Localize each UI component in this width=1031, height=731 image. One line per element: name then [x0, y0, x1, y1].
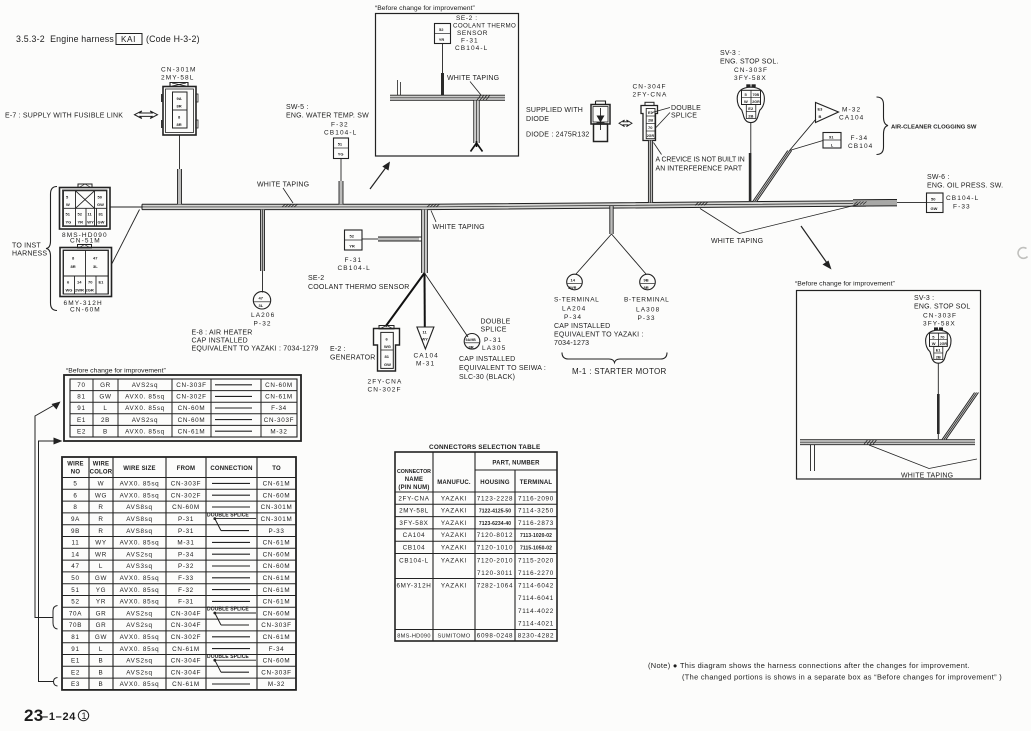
svg-text:70: 70 — [88, 280, 93, 285]
svg-text:L: L — [99, 563, 103, 570]
svg-text:YR: YR — [439, 37, 445, 42]
svg-text:2B: 2B — [648, 118, 653, 123]
svg-text:7115-1050-02: 7115-1050-02 — [520, 546, 552, 552]
svg-text:R: R — [98, 504, 103, 511]
svg-text:HOUSING: HOUSING — [480, 480, 510, 486]
svg-text:9A: 9A — [177, 96, 182, 101]
triangle CA104 M-31 — [417, 327, 434, 349]
svg-text:CAP INSTALLED: CAP INSTALLED — [554, 323, 610, 330]
svg-text:AN INTERFERENCE PART: AN INTERFERENCE PART — [656, 166, 743, 173]
svg-text:CN-302F: CN-302F — [176, 394, 206, 401]
svg-text:7114-6042: 7114-6042 — [518, 583, 554, 590]
svg-text:CN-60M: CN-60M — [263, 492, 291, 499]
svg-text:E1: E1 — [99, 280, 105, 285]
svg-text:YG: YG — [66, 220, 72, 225]
drop to LA206 P-32 — [260, 210, 264, 271]
svg-text:DOUBLE: DOUBLE — [481, 319, 511, 326]
svg-text:TO INST: TO INST — [12, 243, 41, 250]
svg-text:YAZAKI: YAZAKI — [441, 508, 467, 515]
wire CN-304F to band — [648, 141, 653, 203]
pin grid — [64, 251, 109, 295]
svg-text:CA104: CA104 — [414, 353, 439, 360]
svg-text:CN-302F: CN-302F — [171, 492, 201, 499]
svg-text:(Note) ● This diagram shows th: (Note) ● This diagram shows the harness … — [648, 661, 970, 670]
svg-text:SUMITOMO: SUMITOMO — [437, 634, 470, 640]
white taping hatch 4 — [854, 202, 867, 205]
svg-text:EQUIVALENT TO YAZAKI :: EQUIVALENT TO YAZAKI : — [554, 332, 644, 339]
svg-text:F-31: F-31 — [461, 38, 479, 45]
svg-text:CN-304F: CN-304F — [171, 610, 201, 617]
svg-text:7116-2873: 7116-2873 — [518, 520, 554, 527]
svg-text:SE-2: SE-2 — [308, 275, 324, 282]
svg-text:5: 5 — [73, 481, 77, 488]
starter underbrace — [562, 353, 667, 363]
side bumps — [161, 94, 163, 102]
svg-text:91: 91 — [77, 405, 85, 412]
top tab — [78, 184, 92, 188]
svg-text:8R: 8R — [644, 285, 649, 290]
svg-text:ENG. STOP SOL.: ENG. STOP SOL. — [720, 59, 779, 66]
svg-text:AVS8sq: AVS8sq — [126, 516, 153, 523]
svg-text:P-31: P-31 — [484, 337, 502, 344]
pin grid — [64, 191, 107, 226]
svg-text:8MS-HD090: 8MS-HD090 — [397, 634, 430, 640]
svg-text:7116-2270: 7116-2270 — [518, 570, 554, 577]
svg-text:9B: 9B — [644, 278, 649, 283]
svg-text:CONNECTOR: CONNECTOR — [397, 469, 431, 475]
svg-text:COOLANT THERMO SENSOR: COOLANT THERMO SENSOR — [308, 284, 410, 291]
svg-text:CN-61M: CN-61M — [263, 599, 291, 606]
inset diagonal band — [942, 393, 979, 440]
svg-text:8: 8 — [73, 504, 77, 511]
hollow arrow E-7 — [135, 111, 158, 119]
svg-text:CN-61M: CN-61M — [263, 481, 291, 488]
wire 52/YR to drop band with tape — [362, 238, 378, 240]
svg-text:7120-1010: 7120-1010 — [477, 545, 513, 552]
svg-text:CN-303F: CN-303F — [923, 313, 957, 320]
inset left stub — [811, 445, 815, 471]
pin cells — [173, 92, 188, 128]
svg-text:70: 70 — [940, 334, 945, 339]
svg-text:50: 50 — [931, 196, 936, 201]
white taping hatch 1 — [282, 204, 298, 207]
svg-text:1: 1 — [82, 711, 87, 721]
svg-text:2B: 2B — [101, 417, 110, 424]
svg-text:WHITE TAPING: WHITE TAPING — [901, 473, 953, 480]
svg-text:–1–24: –1–24 — [42, 711, 76, 723]
svg-text:9B: 9B — [71, 528, 80, 535]
svg-text:7282-1064: 7282-1064 — [477, 583, 513, 590]
svg-text:5: 5 — [66, 195, 69, 200]
svg-text:“Before change for improvement: “Before change for improvement” — [795, 281, 895, 288]
svg-text:S-TERMINAL: S-TERMINAL — [554, 297, 599, 304]
svg-text:3.5.3-2 Engine harness: 3.5.3-2 Engine harness — [16, 34, 114, 44]
svg-text:(The changed portions is shows: (The changed portions is shows in a sepa… — [682, 673, 1002, 682]
svg-text:YR: YR — [96, 599, 106, 606]
svg-text:SE-2 :: SE-2 : — [456, 15, 478, 22]
inset taping hatch — [477, 95, 490, 100]
svg-text:F-34: F-34 — [269, 646, 285, 653]
svg-text:6098-0248: 6098-0248 — [477, 633, 513, 640]
svg-text:GW: GW — [384, 362, 391, 367]
S terminal circle 14/2WR — [567, 274, 583, 290]
svg-text:NAME: NAME — [405, 477, 423, 483]
svg-text:YAZAKI: YAZAKI — [441, 583, 467, 590]
connector CN-301M 2MY-58L — [161, 67, 198, 136]
svg-text:CAP INSTALLED: CAP INSTALLED — [459, 356, 515, 363]
svg-text:E2: E2 — [77, 428, 86, 435]
svg-text:2FY-CNA: 2FY-CNA — [633, 92, 668, 99]
brace TO INST HARNESS — [46, 187, 57, 311]
svg-text:F-31: F-31 — [345, 257, 363, 264]
svg-text:47: 47 — [259, 296, 264, 301]
svg-text:P-33: P-33 — [638, 315, 656, 322]
svg-text:7115-2020: 7115-2020 — [518, 558, 554, 565]
svg-text:LA308: LA308 — [636, 307, 660, 314]
svg-text:CN-302F: CN-302F — [368, 387, 402, 394]
inset harness band — [390, 95, 505, 101]
svg-text:M-32: M-32 — [842, 107, 861, 114]
svg-text:YR: YR — [349, 244, 355, 249]
diode symbol — [600, 108, 602, 130]
svg-text:GW: GW — [99, 394, 111, 401]
svg-text:70: 70 — [77, 382, 85, 389]
svg-text:AVS2sq: AVS2sq — [132, 417, 159, 424]
svg-text:F-33: F-33 — [953, 204, 971, 211]
svg-text:GR: GR — [96, 610, 107, 617]
svg-text:7120-8012: 7120-8012 — [477, 532, 513, 539]
svg-text:CB104-L: CB104-L — [399, 558, 429, 565]
svg-text:L: L — [99, 646, 103, 653]
svg-text:AVS2sq: AVS2sq — [126, 610, 153, 617]
svg-text:CN-304F: CN-304F — [633, 84, 667, 91]
svg-text:81: 81 — [385, 354, 390, 359]
wire CN-60M to band — [112, 210, 140, 264]
svg-text:2B: 2B — [936, 355, 941, 360]
svg-text:E1: E1 — [77, 417, 86, 424]
svg-text:11: 11 — [423, 330, 428, 335]
svg-text:CB104-L: CB104-L — [338, 265, 371, 272]
diagonal band to air cleaner sw — [753, 151, 792, 202]
arrow pointing to top inset — [370, 162, 390, 190]
svg-text:GW: GW — [98, 220, 105, 225]
svg-text:7120-3011: 7120-3011 — [477, 570, 513, 577]
svg-text:DOUBLE SPLICE: DOUBLE SPLICE — [207, 607, 249, 613]
svg-text:CN-303F: CN-303F — [261, 669, 291, 676]
svg-text:F-32: F-32 — [331, 122, 349, 129]
diode component — [591, 101, 610, 142]
svg-text:AVX0. 85sq: AVX0. 85sq — [120, 646, 160, 653]
svg-text:LA206: LA206 — [251, 312, 275, 319]
svg-text:CN-61M: CN-61M — [172, 681, 200, 688]
svg-text:52: 52 — [78, 212, 83, 217]
svg-text:E-2 :: E-2 : — [330, 346, 346, 353]
svg-text:2GR: 2GR — [752, 100, 760, 104]
svg-text:LA204: LA204 — [562, 306, 586, 313]
wire SW-5 to band — [340, 159, 342, 182]
svg-text:AIR-CLEANER CLOGGING SW: AIR-CLEANER CLOGGING SW — [891, 125, 977, 131]
svg-text:GR: GR — [100, 382, 111, 389]
top tab — [170, 83, 188, 87]
svg-text:DOUBLE: DOUBLE — [671, 105, 701, 112]
inset vertical drop band — [474, 101, 480, 144]
svg-text:7113-1020-02: 7113-1020-02 — [520, 533, 552, 539]
svg-text:CN-61M: CN-61M — [263, 575, 291, 582]
svg-text:CA104: CA104 — [839, 115, 864, 122]
svg-text:AVS2sq: AVS2sq — [126, 622, 153, 629]
white taping hatch 3 — [695, 202, 708, 205]
svg-text:WIRE SIZE: WIRE SIZE — [123, 466, 155, 472]
connector F-33 (50/GW) — [927, 193, 944, 213]
svg-text:YAZAKI: YAZAKI — [441, 558, 467, 565]
svg-text:M-1 : STARTER MOTOR: M-1 : STARTER MOTOR — [572, 367, 667, 376]
svg-text:YAZAKI: YAZAKI — [441, 532, 467, 539]
svg-text:3FY-58X: 3FY-58X — [923, 321, 956, 328]
svg-text:9A/9B: 9A/9B — [466, 338, 477, 342]
svg-text:M-31: M-31 — [177, 540, 194, 547]
svg-text:CN-301M: CN-301M — [261, 516, 293, 523]
fan from drop point — [386, 273, 425, 327]
svg-text:CB104-L: CB104-L — [324, 130, 357, 137]
svg-text:WIRE: WIRE — [67, 462, 83, 468]
svg-text:W: W — [98, 481, 105, 488]
svg-text:GR: GR — [96, 622, 107, 629]
inset left stub wires — [397, 80, 399, 95]
svg-text:51: 51 — [71, 587, 79, 594]
svg-text:L: L — [831, 143, 834, 148]
svg-text:YG: YG — [96, 587, 107, 594]
svg-text:DOUBLE SPLICE: DOUBLE SPLICE — [207, 512, 249, 518]
svg-text:2MY-58L: 2MY-58L — [399, 508, 429, 515]
svg-text:47: 47 — [93, 256, 98, 261]
svg-text:8R: 8R — [177, 122, 182, 127]
svg-text:DIODE: DIODE — [526, 116, 549, 123]
svg-text:AVX0. 85sq: AVX0. 85sq — [125, 428, 165, 435]
svg-text:PART, NUMBER: PART, NUMBER — [492, 461, 540, 467]
svg-text:2MY-58L: 2MY-58L — [161, 75, 194, 82]
svg-text:L: L — [103, 405, 107, 412]
svg-text:CAP INSTALLED: CAP INSTALLED — [192, 338, 248, 345]
svg-text:WHITE TAPING: WHITE TAPING — [257, 182, 309, 189]
svg-text:CB104: CB104 — [848, 143, 873, 150]
svg-text:“Before change for improvement: “Before change for improvement” — [66, 368, 166, 375]
svg-text:MANUFUC.: MANUFUC. — [437, 480, 471, 486]
svg-text:DOUBLE SPLICE: DOUBLE SPLICE — [207, 654, 249, 660]
svg-text:AVS8sq: AVS8sq — [126, 504, 153, 511]
svg-text:8230-4282: 8230-4282 — [518, 633, 554, 640]
svg-text:CN-60M: CN-60M — [70, 307, 101, 314]
svg-text:B: B — [99, 681, 104, 688]
svg-text:CB104: CB104 — [403, 545, 426, 552]
pointer lines from rows 70A/70B and E3 to small table — [35, 404, 58, 686]
svg-text:A CREVICE IS NOT BUILT IN: A CREVICE IS NOT BUILT IN — [656, 157, 745, 164]
svg-text:AVS2sq: AVS2sq — [126, 669, 153, 676]
svg-text:GW: GW — [95, 575, 107, 582]
svg-text:NO: NO — [71, 470, 81, 476]
wire CN-51M to band — [110, 206, 142, 208]
svg-text:9A: 9A — [71, 516, 80, 523]
svg-text:CN-60M: CN-60M — [263, 551, 291, 558]
svg-text:7114-3250: 7114-3250 — [518, 508, 554, 515]
inset wire down — [937, 363, 939, 394]
svg-text:2GR: 2GR — [86, 288, 94, 293]
svg-text:YAZAKI: YAZAKI — [441, 520, 467, 527]
svg-text:P-32: P-32 — [178, 563, 194, 570]
svg-text:P-32: P-32 — [254, 321, 272, 328]
svg-text:CN-304F: CN-304F — [171, 658, 201, 665]
svg-text:2FY-CNA: 2FY-CNA — [368, 379, 403, 386]
svg-text:P-34: P-34 — [564, 314, 582, 321]
title — [16, 34, 200, 45]
svg-text:14: 14 — [77, 280, 82, 285]
band right thick gray segment — [853, 199, 897, 206]
svg-text:ENG. WATER TEMP. SW: ENG. WATER TEMP. SW — [286, 113, 369, 120]
svg-text:CN-60M: CN-60M — [178, 417, 206, 424]
svg-text:W: W — [744, 99, 748, 104]
svg-text:COOLANT THERMO: COOLANT THERMO — [453, 23, 516, 30]
svg-text:7123-6234-40: 7123-6234-40 — [479, 521, 511, 527]
svg-text:WG: WG — [95, 492, 107, 499]
svg-text:YAZAKI: YAZAKI — [441, 495, 467, 502]
svg-text:YAZAKI: YAZAKI — [441, 545, 467, 552]
svg-text:TERMINAL: TERMINAL — [520, 480, 553, 486]
svg-text:51: 51 — [66, 212, 71, 217]
svg-text:CN-61M: CN-61M — [265, 394, 293, 401]
svg-text:CB104-L: CB104-L — [946, 195, 979, 202]
svg-text:AVX0. 85sq: AVX0. 85sq — [125, 394, 165, 401]
svg-text:7114-4022: 7114-4022 — [518, 608, 554, 615]
svg-text:CN-303F: CN-303F — [264, 417, 294, 424]
svg-text:HARNESS: HARNESS — [12, 251, 47, 258]
svg-text:11: 11 — [72, 540, 80, 547]
hollow arrow diode — [619, 120, 632, 127]
svg-text:70B: 70B — [69, 622, 82, 629]
svg-text:GW: GW — [931, 206, 938, 211]
drop to starter terminals — [610, 206, 614, 234]
svg-text:E2: E2 — [71, 669, 80, 676]
svg-text:R: R — [98, 528, 103, 535]
svg-text:7034-1273: 7034-1273 — [554, 340, 589, 347]
svg-text:E1: E1 — [71, 658, 80, 665]
connector CN-51M 8MS-HD090 — [60, 184, 111, 244]
connector CN-303F bulb — [737, 84, 764, 122]
svg-text:WG: WG — [384, 344, 391, 349]
svg-text:AVS2sq: AVS2sq — [126, 551, 153, 558]
inset crow-foot arrow end — [471, 141, 483, 152]
svg-text:2GR: 2GR — [940, 342, 948, 346]
svg-text:TO: TO — [272, 466, 281, 472]
svg-text:50: 50 — [71, 575, 79, 582]
svg-text:8: 8 — [178, 115, 181, 120]
inset wire from 52/YR down — [442, 44, 444, 74]
svg-text:SW-6 :: SW-6 : — [927, 174, 949, 181]
svg-text:B: B — [99, 669, 104, 676]
triangle M-32 CA104 (E3/B) — [816, 103, 839, 123]
wire CN-301M to band — [179, 135, 181, 169]
svg-text:F-34: F-34 — [271, 405, 287, 412]
svg-text:P-34: P-34 — [178, 551, 194, 558]
svg-text:CN-301M: CN-301M — [161, 67, 197, 74]
svg-text:2FY-CNA: 2FY-CNA — [398, 495, 429, 502]
inset box bottom: before change for improvement — [795, 281, 981, 480]
svg-text:AVS2sq: AVS2sq — [126, 658, 153, 665]
svg-text:E3: E3 — [818, 107, 824, 112]
svg-text:WHITE TAPING: WHITE TAPING — [711, 238, 763, 245]
svg-text:8R: 8R — [71, 264, 76, 269]
white taping hatch 2 — [427, 204, 440, 207]
svg-text:70B: 70B — [753, 93, 760, 97]
svg-text:AVX0. 85sq: AVX0. 85sq — [120, 575, 160, 582]
svg-text:6: 6 — [67, 280, 70, 285]
svg-text:23: 23 — [24, 706, 44, 725]
svg-text:F-32: F-32 — [178, 587, 194, 594]
svg-text:11: 11 — [88, 212, 93, 217]
svg-text:YR: YR — [78, 220, 84, 225]
svg-text:8: 8 — [72, 256, 75, 261]
svg-text:E2: E2 — [748, 106, 754, 111]
svg-text:P-31: P-31 — [178, 528, 194, 535]
svg-text:COLOR: COLOR — [90, 470, 113, 476]
svg-text:W: W — [932, 341, 936, 346]
svg-text:SV-3 :: SV-3 : — [914, 295, 934, 302]
arrow to bottom inset — [801, 226, 832, 270]
svg-text:CN-61M: CN-61M — [178, 428, 206, 435]
svg-text:6MY-312H: 6MY-312H — [396, 583, 431, 590]
svg-text:SPLICE: SPLICE — [481, 327, 507, 334]
svg-text:AVX0. 85sq: AVX0. 85sq — [120, 634, 160, 641]
svg-text:2B: 2B — [748, 114, 753, 119]
double splice circle LA305 P-31 — [464, 334, 480, 350]
svg-text:5: 5 — [932, 334, 935, 339]
svg-text:(PIN NUM): (PIN NUM) — [398, 485, 429, 491]
svg-text:SENSOR: SENSOR — [457, 30, 488, 37]
svg-text:EQUIVALENT TO YAZAKI : 7034-12: EQUIVALENT TO YAZAKI : 7034-1279 — [192, 346, 319, 353]
svg-text:70: 70 — [648, 125, 653, 130]
svg-text:7114-4021: 7114-4021 — [518, 621, 554, 628]
svg-text:CN-60M: CN-60M — [263, 563, 291, 570]
svg-text:YG: YG — [338, 152, 344, 157]
connector E-2 generator 2FY-CNA CN-302F — [374, 326, 400, 372]
svg-text:AVS3sq: AVS3sq — [126, 563, 153, 570]
svg-text:AVX0. 85sq: AVX0. 85sq — [120, 681, 160, 688]
svg-text:2WR: 2WR — [75, 288, 84, 293]
svg-text:91: 91 — [829, 135, 834, 140]
svg-text:2WR: 2WR — [568, 286, 576, 290]
inset harness band — [800, 440, 975, 445]
svg-text:47: 47 — [71, 563, 79, 570]
svg-text:F-33: F-33 — [178, 575, 194, 582]
main wire table — [62, 457, 296, 690]
svg-text:WIRE: WIRE — [93, 462, 109, 468]
svg-text:E3: E3 — [71, 681, 80, 688]
svg-text:B: B — [819, 114, 822, 119]
svg-text:M-32: M-32 — [270, 428, 287, 435]
svg-text:CN-61M: CN-61M — [263, 540, 291, 547]
smudge artifact — [1018, 248, 1027, 259]
svg-text:E-7 : SUPPLY WITH FUSIBLE LINK: E-7 : SUPPLY WITH FUSIBLE LINK — [5, 113, 123, 120]
svg-text:W: W — [66, 202, 70, 207]
svg-text:3L: 3L — [259, 303, 264, 308]
svg-text:7120-2010: 7120-2010 — [477, 558, 513, 565]
brace air-cleaner — [877, 97, 889, 155]
svg-text:52: 52 — [350, 234, 355, 239]
svg-text:CN-303F: CN-303F — [176, 382, 206, 389]
svg-text:“Before change for improvement: “Before change for improvement” — [375, 5, 475, 12]
svg-text:CN-301M: CN-301M — [261, 504, 293, 511]
svg-text:14: 14 — [71, 551, 79, 558]
svg-text:7114-6041: 7114-6041 — [518, 595, 554, 602]
svg-text:F-31: F-31 — [178, 599, 194, 606]
